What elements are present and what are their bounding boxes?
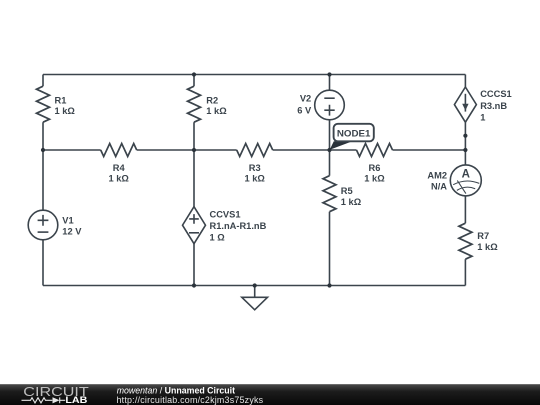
svg-text:6 V: 6 V: [297, 106, 312, 116]
svg-text:N/A: N/A: [431, 181, 447, 191]
svg-text:R7: R7: [477, 231, 489, 241]
svg-text:R1.nA-R1.nB: R1.nA-R1.nB: [210, 221, 267, 231]
svg-text:R3: R3: [249, 163, 261, 173]
svg-text:R5: R5: [341, 186, 353, 196]
svg-text:V2: V2: [300, 94, 311, 104]
svg-text:R1: R1: [55, 95, 67, 105]
svg-text:1 kΩ: 1 kΩ: [477, 242, 498, 252]
svg-text:12 V: 12 V: [62, 226, 82, 236]
svg-text:V1: V1: [62, 216, 73, 226]
svg-text:AM2: AM2: [427, 171, 447, 181]
svg-text:R4: R4: [113, 163, 126, 173]
svg-text:mowentan / Unnamed Circuit: mowentan / Unnamed Circuit: [117, 385, 235, 395]
svg-text:1 kΩ: 1 kΩ: [55, 106, 76, 116]
svg-text:1 kΩ: 1 kΩ: [364, 174, 385, 184]
svg-text:1 kΩ: 1 kΩ: [245, 174, 266, 184]
svg-text:NODE1: NODE1: [337, 128, 371, 138]
svg-text:A: A: [462, 168, 470, 180]
svg-text:1 kΩ: 1 kΩ: [341, 197, 362, 207]
svg-text:R2: R2: [206, 95, 218, 105]
svg-text:CCCS1: CCCS1: [480, 89, 512, 99]
svg-text:1 kΩ: 1 kΩ: [206, 106, 227, 116]
svg-text:LAB: LAB: [65, 395, 87, 405]
svg-text:CCVS1: CCVS1: [210, 209, 241, 219]
svg-text:R6: R6: [369, 163, 381, 173]
svg-text:http://circuitlab.com/c2kjm3s7: http://circuitlab.com/c2kjm3s75zyks: [117, 395, 264, 405]
svg-text:1: 1: [480, 113, 485, 123]
svg-text:R3.nB: R3.nB: [480, 101, 507, 111]
svg-text:1 Ω: 1 Ω: [210, 233, 226, 243]
svg-text:1 kΩ: 1 kΩ: [109, 174, 130, 184]
